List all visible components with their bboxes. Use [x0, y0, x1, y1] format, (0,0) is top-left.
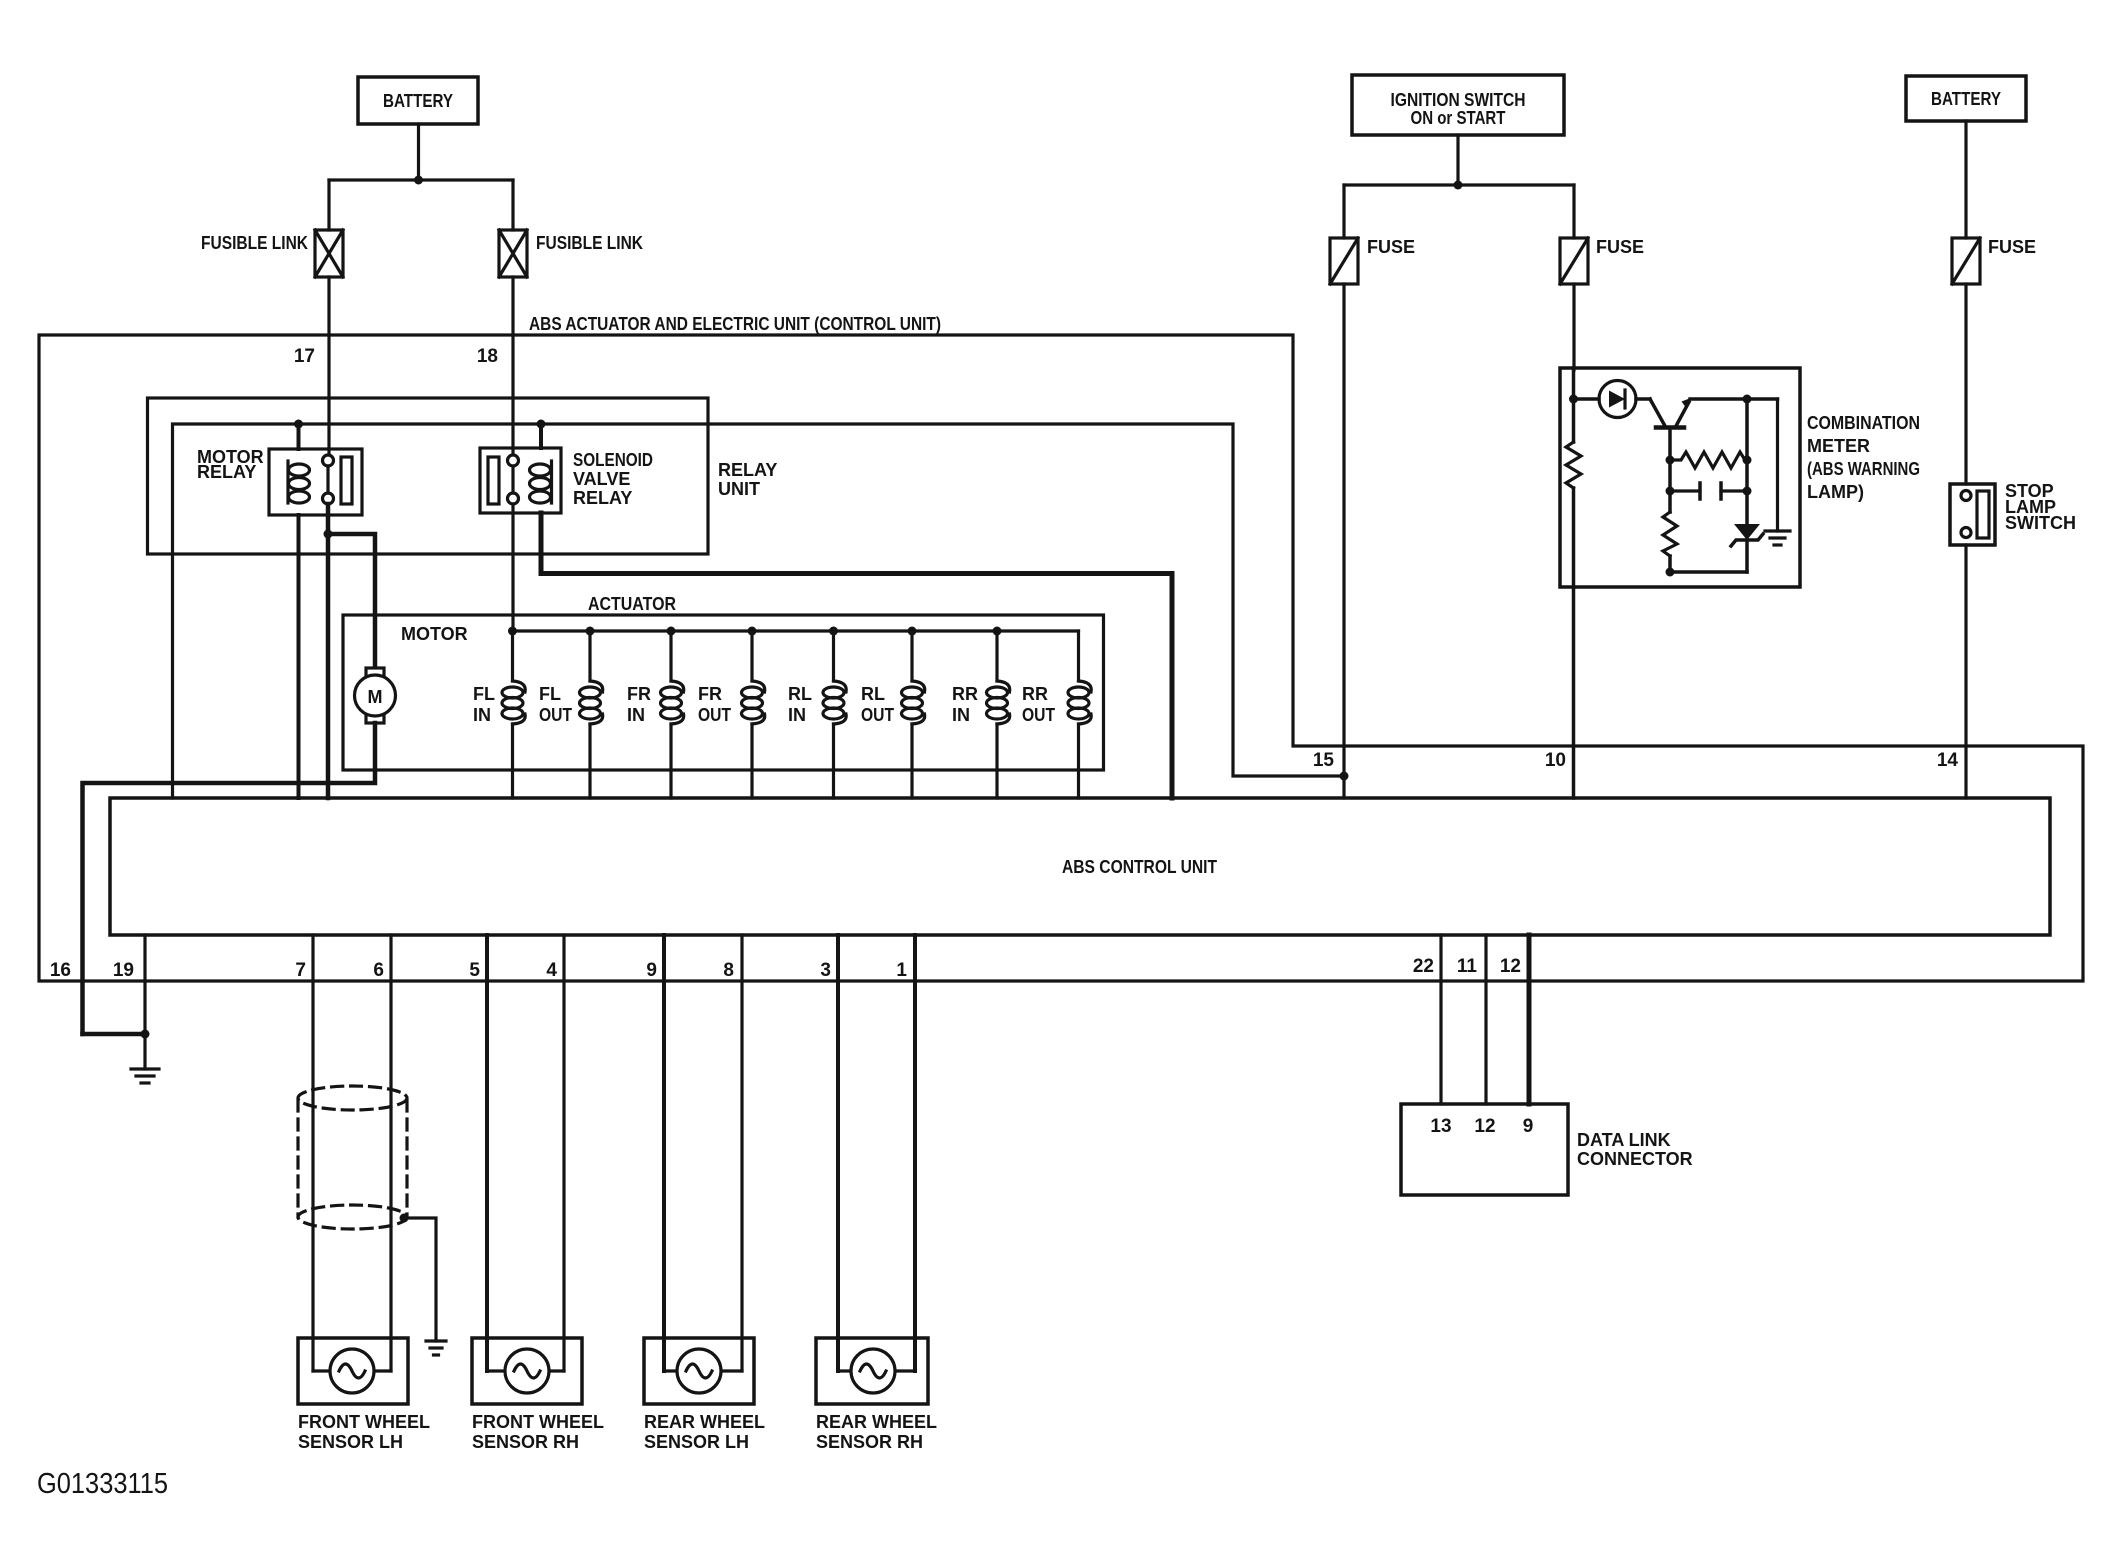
svg-text:SENSOR LH: SENSOR LH: [298, 1432, 403, 1452]
wire fusible link right to pin 18: [511, 277, 514, 455]
front wheel sensor RH: [472, 1338, 604, 1452]
svg-text:9: 9: [1523, 1116, 1534, 1137]
wire lamp to transistor collector: [1636, 397, 1650, 401]
resistor R1 (meter feed): [1566, 442, 1581, 488]
svg-text:METER: METER: [1807, 436, 1870, 456]
wire pin 11 to data link connector: [1484, 935, 1487, 1104]
wire actuator feed rail: [513, 629, 1079, 632]
svg-text:OUT: OUT: [1022, 705, 1055, 725]
solenoid coil RL IN: [788, 631, 846, 798]
ground (main): [131, 1034, 159, 1083]
wire meter feed upper: [1572, 368, 1576, 442]
svg-text:10: 10: [1545, 750, 1566, 771]
svg-text:SENSOR LH: SENSOR LH: [644, 1432, 749, 1452]
svg-text:OUT: OUT: [539, 705, 572, 725]
wire pin 4 to front wheel sensor RH: [562, 935, 565, 1371]
svg-text:LAMP): LAMP): [1807, 482, 1864, 502]
wire ignition to junction: [1456, 135, 1459, 185]
resistor R2 (base-emitter): [1670, 452, 1747, 468]
wire motor relay contact output: [326, 504, 331, 798]
svg-text:1: 1: [896, 960, 907, 981]
wire pin 9 to rear wheel sensor LH: [662, 935, 666, 1371]
svg-text:DATA LINK: DATA LINK: [1577, 1130, 1671, 1150]
svg-text:REAR WHEEL: REAR WHEEL: [816, 1412, 937, 1432]
wire to left fusible link: [327, 180, 330, 230]
svg-text:14: 14: [1937, 750, 1959, 771]
svg-text:13: 13: [1430, 1116, 1451, 1137]
ignition switch: [1352, 75, 1564, 135]
svg-text:7: 7: [295, 960, 306, 981]
wire pin 7 to front wheel sensor LH: [311, 935, 314, 1371]
capacitor C1: [1670, 483, 1747, 499]
ABS warning lamp LED: [1599, 381, 1636, 418]
combination meter box: [1560, 368, 1920, 587]
svg-text:18: 18: [477, 346, 498, 367]
svg-text:4: 4: [546, 960, 557, 981]
node rail FL OUT: [586, 627, 595, 636]
shield around front wheel sensor LH wires: [298, 1086, 407, 1229]
wire pin 19 to ground junction: [143, 935, 146, 1034]
node base node: [1666, 456, 1675, 465]
wire pin 6 to front wheel sensor LH: [389, 935, 392, 1371]
svg-text:ABS ACTUATOR AND ELECTRIC UNIT: ABS ACTUATOR AND ELECTRIC UNIT (CONTROL …: [529, 314, 941, 334]
wire stop lamp switch to pin 14: [1964, 545, 1967, 798]
wire fuse F1 to pin 15: [1342, 284, 1345, 798]
wire solenoid relay coil top: [539, 424, 543, 448]
wire pin 8 to rear wheel sensor LH: [740, 935, 743, 1371]
fusible link (right): [499, 230, 643, 277]
ground (combination meter): [1765, 531, 1790, 545]
wire pin 12 to data link connector: [1527, 935, 1532, 1104]
svg-text:FUSE: FUSE: [1596, 237, 1644, 257]
svg-text:ACTUATOR: ACTUATOR: [588, 594, 676, 614]
wire to right fusible link: [511, 180, 514, 230]
svg-text:FL: FL: [473, 684, 495, 704]
svg-text:CONNECTOR: CONNECTOR: [1577, 1149, 1693, 1169]
node emitter rail: [1743, 395, 1752, 404]
svg-text:5: 5: [469, 960, 480, 981]
svg-text:FUSIBLE LINK: FUSIBLE LINK: [201, 233, 308, 253]
svg-text:6: 6: [373, 960, 384, 981]
svg-text:BATTERY: BATTERY: [383, 91, 453, 111]
wire transistor emitter rail to meter ground: [1690, 397, 1778, 401]
svg-text:12: 12: [1474, 1116, 1495, 1137]
svg-text:17: 17: [294, 346, 315, 367]
svg-text:3: 3: [820, 960, 831, 981]
svg-text:IN: IN: [627, 705, 645, 725]
wire motor relay contact middle: [326, 466, 329, 493]
svg-text:19: 19: [113, 960, 134, 981]
svg-text:FUSE: FUSE: [1367, 237, 1415, 257]
svg-text:RELAY: RELAY: [718, 460, 777, 480]
wire ignition feed rail: [1344, 183, 1574, 186]
svg-text:IGNITION SWITCH: IGNITION SWITCH: [1391, 90, 1526, 110]
wire branch to motor: [328, 534, 375, 668]
svg-text:(ABS WARNING: (ABS WARNING: [1807, 459, 1920, 479]
wire to fuse (warning lamp circuit): [1342, 185, 1345, 238]
node bottom rail left: [1666, 568, 1675, 577]
node rail RR IN: [993, 627, 1002, 636]
svg-text:BATTERY: BATTERY: [1931, 89, 2001, 109]
data link connector: [1401, 1104, 1693, 1195]
wire meter feed lower to pin 10: [1572, 488, 1576, 798]
svg-text:M: M: [368, 687, 383, 707]
wire fuse F3 to stop lamp switch: [1964, 284, 1967, 484]
wire shield to ground: [404, 1218, 436, 1341]
svg-text:FRONT WHEEL: FRONT WHEEL: [472, 1412, 604, 1432]
wire battery feed rail: [329, 178, 513, 181]
svg-text:SENSOR RH: SENSOR RH: [472, 1432, 579, 1452]
motor M: [355, 624, 468, 723]
fuse F2 (combination meter): [1560, 237, 1644, 284]
fuse F3 (stop lamp): [1952, 237, 2036, 284]
svg-text:12: 12: [1500, 956, 1521, 977]
node rail RL OUT: [908, 627, 917, 636]
svg-text:SOLENOID: SOLENOID: [573, 450, 653, 470]
node capacitor right node: [1743, 487, 1752, 496]
solenoid coil RL OUT: [861, 631, 925, 798]
stop lamp switch: [1950, 481, 2076, 545]
wire to fuse (meter circuit): [1572, 185, 1575, 238]
node capacitor left node: [1666, 487, 1675, 496]
wire pin 5 to front wheel sensor RH: [485, 935, 489, 1371]
ground (shield): [426, 1341, 446, 1355]
node motor relay coil feed: [294, 420, 303, 429]
resistor R3 (base lower): [1663, 512, 1677, 556]
svg-text:FR: FR: [627, 684, 651, 704]
svg-text:G01333115: G01333115: [37, 1468, 168, 1500]
svg-text:FR: FR: [698, 684, 722, 704]
solenoid coil RR IN: [952, 631, 1010, 798]
svg-text:ON or START: ON or START: [1411, 108, 1506, 128]
node shield ground tap: [400, 1214, 409, 1223]
node emitter resistor node: [1743, 456, 1752, 465]
wire solenoid relay contact to actuator: [511, 504, 514, 631]
svg-text:REAR WHEEL: REAR WHEEL: [644, 1412, 765, 1432]
svg-text:RL: RL: [788, 684, 812, 704]
node motor branch: [324, 530, 333, 539]
wire meter internal ground drop: [1776, 399, 1779, 531]
svg-text:SWITCH: SWITCH: [2005, 513, 2076, 533]
node ignition junction: [1454, 181, 1463, 190]
svg-text:MOTOR: MOTOR: [401, 624, 468, 644]
wire motor relay coil top: [297, 424, 301, 449]
wire resistor R3 to bottom rail: [1668, 556, 1672, 572]
svg-text:OUT: OUT: [861, 705, 894, 725]
svg-text:RR: RR: [952, 684, 978, 704]
wire motor relay coil bottom to ABS: [297, 515, 301, 798]
svg-text:11: 11: [1457, 956, 1478, 977]
node rail FR IN: [667, 627, 676, 636]
wire pin 22 to data link connector: [1439, 935, 1442, 1104]
svg-text:FUSIBLE LINK: FUSIBLE LINK: [536, 233, 643, 253]
svg-text:RR: RR: [1022, 684, 1048, 704]
node solenoid relay coil feed: [537, 420, 546, 429]
fuse F1 (pin 15 circuit): [1330, 237, 1415, 284]
wire pin 16 link to ground junction: [83, 1032, 146, 1037]
box ABS actuator and electric unit outline: [39, 335, 2083, 981]
svg-text:OUT: OUT: [698, 705, 731, 725]
wire relay coil feed line (from ABS to both relay coils and pin 15): [173, 424, 1345, 798]
node meter feed / lamp branch: [1569, 395, 1578, 404]
svg-text:9: 9: [646, 960, 657, 981]
wire solenoid relay contact middle: [511, 466, 514, 493]
node rail FR OUT: [748, 627, 757, 636]
svg-text:IN: IN: [473, 705, 491, 725]
svg-text:FL: FL: [539, 684, 561, 704]
svg-text:8: 8: [723, 960, 734, 981]
wire fusible link left to pin 17: [327, 277, 330, 455]
svg-text:UNIT: UNIT: [718, 479, 760, 499]
svg-text:VALVE: VALVE: [573, 469, 630, 489]
node rail RL IN: [829, 627, 838, 636]
relay K1 motor relay: [197, 447, 362, 515]
fusible link (left): [201, 230, 343, 277]
svg-text:FRONT WHEEL: FRONT WHEEL: [298, 1412, 430, 1432]
wire transistor base: [1668, 428, 1672, 461]
wire solenoid relay output run to ABS: [541, 513, 1172, 798]
wire meter bottom rail: [1670, 570, 1747, 574]
wire emitter node to zener: [1745, 399, 1749, 524]
relay K2 solenoid valve relay: [480, 448, 653, 513]
node battery junction: [414, 176, 423, 185]
svg-text:FUSE: FUSE: [1988, 237, 2036, 257]
node ground junction: [141, 1030, 150, 1039]
wire battery right to fuse: [1964, 121, 1967, 238]
svg-text:IN: IN: [952, 705, 970, 725]
svg-text:IN: IN: [788, 705, 806, 725]
transistor Q1: [1650, 398, 1692, 428]
node pin 15 junction: [1340, 772, 1349, 781]
solenoid coil RR OUT: [1022, 631, 1091, 798]
box ABS control unit: [110, 798, 2050, 935]
wire pin 3 to rear wheel sensor RH: [836, 935, 840, 1371]
solenoid coil FR OUT: [698, 631, 765, 798]
wire base node down: [1668, 460, 1672, 512]
svg-text:16: 16: [50, 960, 71, 981]
wire motor to ground run (pin 16): [83, 723, 376, 1034]
solenoid coil FR IN: [627, 631, 684, 798]
box actuator: [343, 594, 1104, 770]
rear wheel sensor LH: [644, 1338, 765, 1452]
battery (left): [358, 77, 478, 124]
svg-text:RELAY: RELAY: [197, 462, 256, 482]
svg-text:15: 15: [1313, 750, 1335, 771]
svg-text:RELAY: RELAY: [573, 488, 632, 508]
rear wheel sensor RH: [816, 1338, 937, 1452]
box relay unit: [148, 398, 778, 554]
wire pin 1 to rear wheel sensor RH: [913, 935, 917, 1371]
svg-text:RL: RL: [861, 684, 885, 704]
wire fuse F2 to combination meter: [1572, 284, 1575, 370]
node rail FL IN: [508, 627, 517, 636]
battery (right): [1906, 76, 2026, 121]
wire battery to junction: [417, 124, 420, 180]
svg-text:SENSOR RH: SENSOR RH: [816, 1432, 923, 1452]
solenoid coil FL OUT: [539, 631, 603, 798]
wire lamp branch: [1574, 397, 1600, 401]
solenoid coil FL IN: [473, 631, 525, 798]
svg-text:22: 22: [1413, 956, 1434, 977]
svg-text:ABS CONTROL UNIT: ABS CONTROL UNIT: [1062, 857, 1217, 877]
front wheel sensor LH: [298, 1338, 430, 1452]
svg-text:COMBINATION: COMBINATION: [1807, 413, 1920, 433]
zener diode D1: [1731, 524, 1763, 572]
